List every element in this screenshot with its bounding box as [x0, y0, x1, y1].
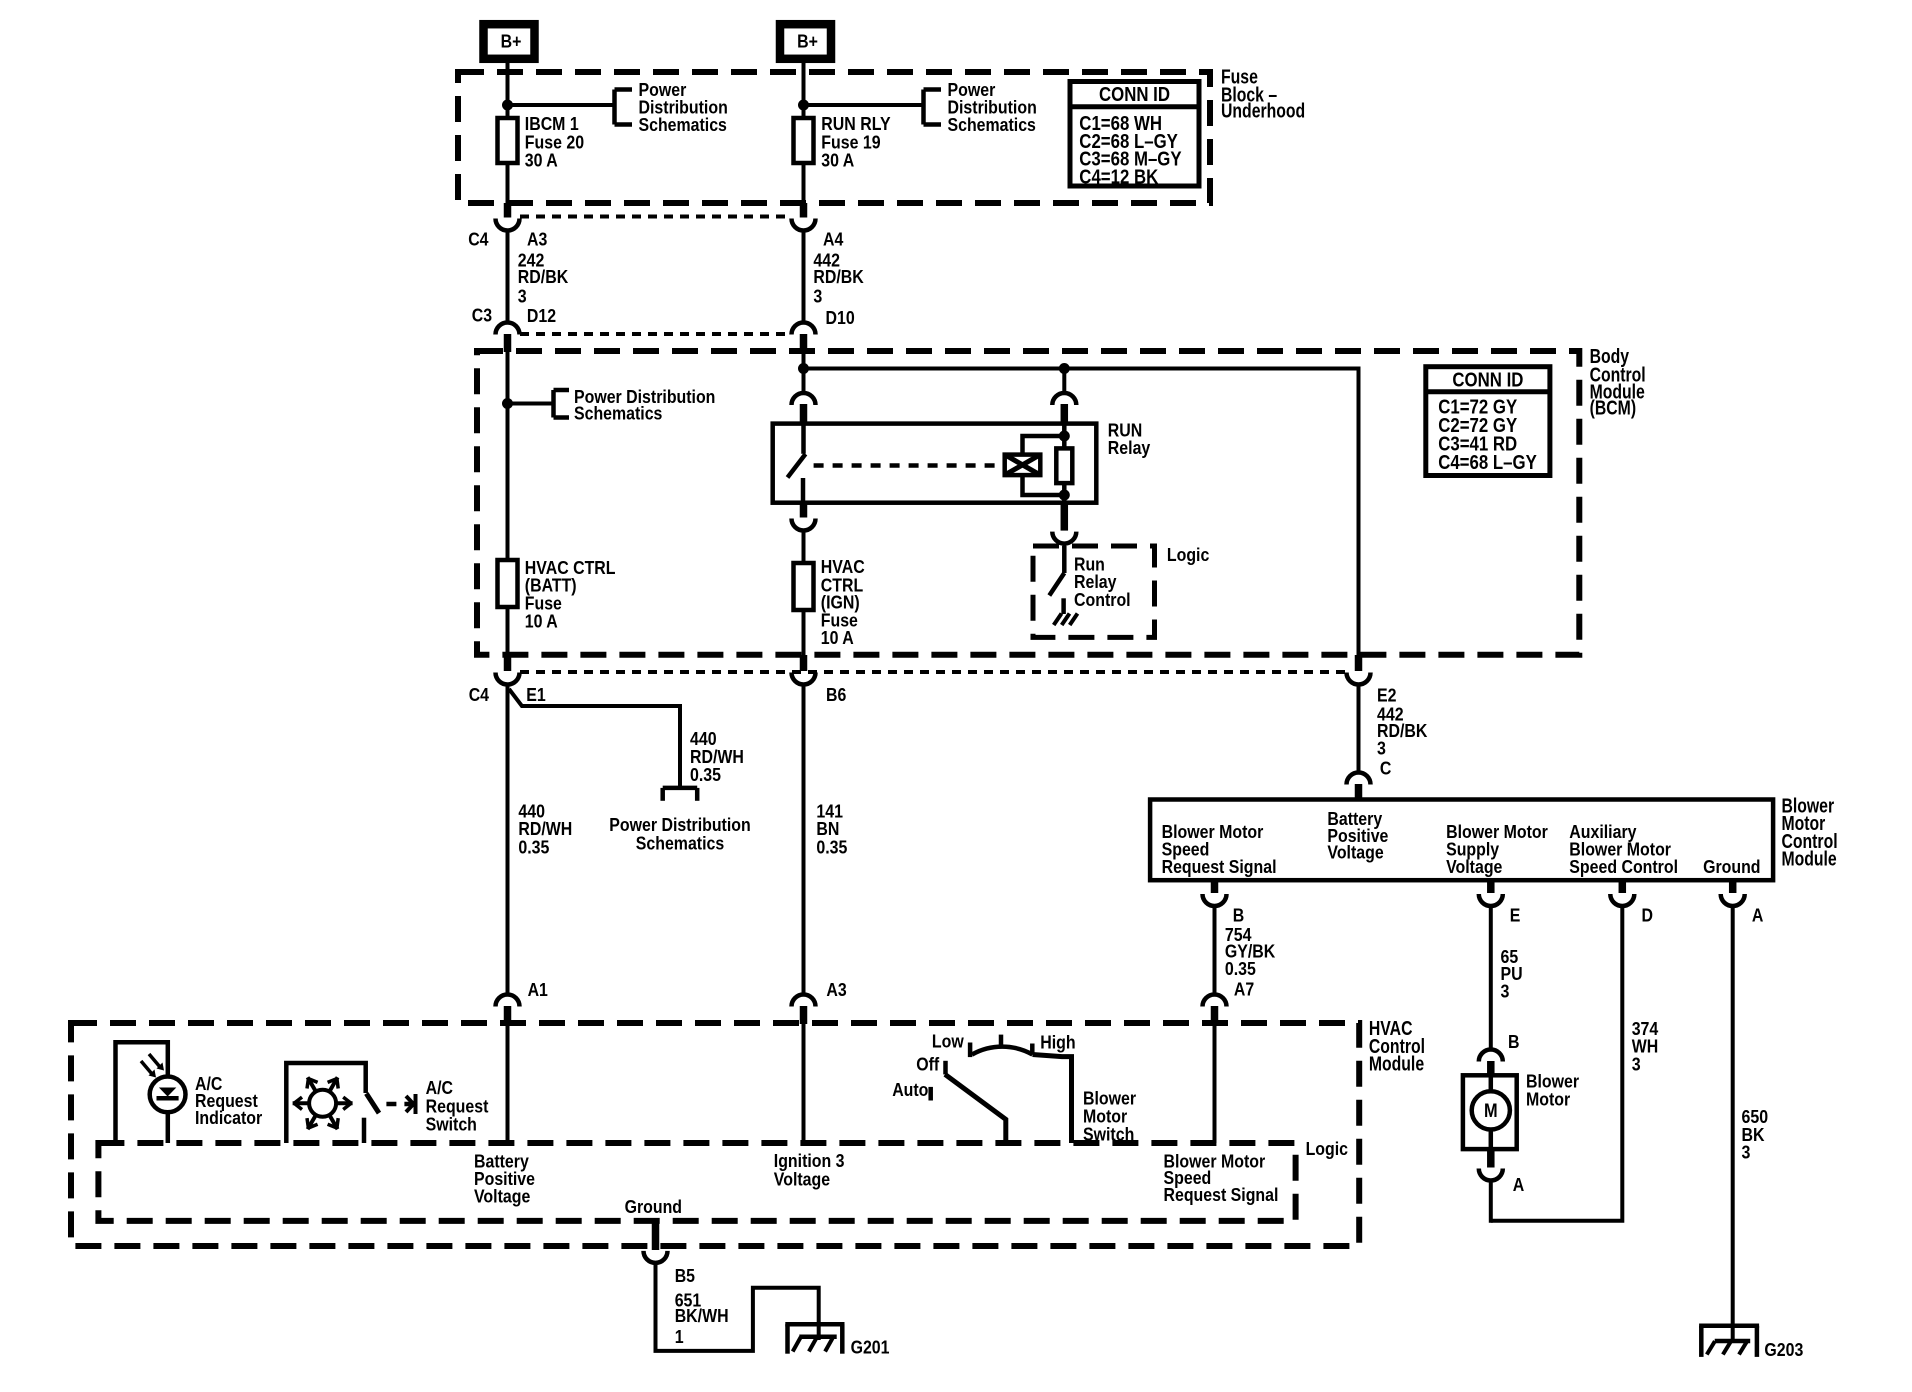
LED light arrows — [141, 1054, 164, 1078]
wire battery positive into hvac — [506, 1024, 510, 1143]
blower switch tick off — [943, 1061, 948, 1075]
pin label E2 — [1377, 684, 1397, 705]
svg-text:C4=68 L–GY: C4=68 L–GY — [1438, 451, 1537, 474]
dotted connector line C4-A4 — [520, 215, 791, 219]
connector D10 socket — [792, 323, 816, 335]
blower switch tick low — [968, 1043, 973, 1058]
connector C4/E1 pin — [504, 655, 512, 671]
off-page tag power distribution 4 — [609, 728, 750, 854]
fuse IBCM 1 Fuse 20 30A — [498, 113, 585, 170]
a/c request indicator label — [195, 1073, 262, 1128]
svg-text:Request Signal: Request Signal — [1162, 856, 1277, 877]
wire ignition into hvac — [802, 1024, 806, 1143]
power terminal B+ (left) — [484, 24, 535, 59]
dotted connector line C3-D10 — [520, 332, 791, 336]
blower switch high contact line — [1033, 1055, 1072, 1144]
pin label C3 — [472, 305, 492, 326]
wire label 754 GY/BK 0.35 — [1225, 924, 1276, 979]
connector motor B socket — [1479, 1050, 1503, 1062]
wire E1 branch — [509, 689, 680, 786]
svg-text:M: M — [1484, 1101, 1498, 1122]
wire 442 RD/BK to module — [1357, 683, 1361, 772]
node junction coil bottom — [1059, 490, 1070, 501]
svg-text:Voltage: Voltage — [1327, 842, 1383, 863]
relay switch fixed contact top — [801, 424, 806, 454]
svg-text:A7: A7 — [1234, 979, 1254, 1000]
svg-text:Off: Off — [916, 1054, 940, 1075]
wire label 65 PU 3 — [1501, 946, 1523, 1002]
svg-text:B5: B5 — [675, 1265, 695, 1286]
wire label 141 BN 0.35 — [816, 801, 847, 858]
hvac pin name speed request — [1164, 1151, 1279, 1206]
off-page tag power distribution 1 — [615, 79, 728, 135]
wire coil drop above relay — [1062, 369, 1066, 393]
svg-text:E2: E2 — [1377, 684, 1397, 705]
node junction coil top — [1059, 431, 1070, 442]
wire label E2 442 RD/BK 3 — [1377, 704, 1428, 759]
connector D10 pin — [800, 334, 808, 352]
hvac pin name ignition — [774, 1150, 845, 1190]
svg-text:0.35: 0.35 — [518, 836, 549, 857]
relay coil symbol — [1005, 455, 1041, 476]
run relay control label — [1074, 554, 1131, 610]
svg-text:Module: Module — [1782, 848, 1837, 871]
module label blower motor control module — [1782, 794, 1838, 870]
pin label A1 — [528, 979, 548, 1000]
wire BCM left drop — [506, 351, 510, 560]
svg-text:10 A: 10 A — [525, 611, 558, 632]
blower motor control module box — [1150, 800, 1773, 881]
svg-text:Voltage: Voltage — [474, 1186, 530, 1207]
svg-text:C3: C3 — [472, 305, 492, 326]
node junction BCM bus left — [798, 363, 809, 374]
hvac pin name battery positive — [474, 1151, 535, 1207]
connector motor A socket — [1479, 1169, 1503, 1181]
relay coil bracket — [1023, 436, 1065, 495]
connector coil output socket — [1052, 532, 1076, 544]
wire resistor stubs — [1062, 424, 1067, 503]
svg-text:A: A — [1752, 905, 1764, 926]
logic label BCM — [1167, 544, 1209, 565]
run relay control logic dashed box — [1033, 546, 1155, 637]
connector A3 socket — [792, 995, 816, 1007]
svg-text:RD/BK: RD/BK — [813, 266, 864, 287]
pin label D — [1642, 905, 1654, 926]
connector A7 pin — [1211, 1006, 1219, 1024]
connector relay input socket — [792, 393, 816, 405]
connector coil output pin — [1061, 503, 1069, 531]
run relay control switch — [1049, 546, 1064, 614]
svg-text:RD/BK: RD/BK — [518, 266, 569, 287]
connector C pin — [1355, 784, 1363, 800]
pin label A3 — [527, 228, 547, 249]
svg-text:B+: B+ — [501, 31, 522, 52]
svg-text:C4=12 BK: C4=12 BK — [1079, 165, 1158, 188]
pin label A — [1752, 905, 1764, 926]
a/c request switch dashes — [386, 1102, 414, 1107]
connector E2 socket — [1347, 673, 1371, 685]
connector B6 pin — [800, 655, 808, 671]
relay actuation dashed link — [814, 463, 1003, 468]
fuse RUN RLY Fuse 19 30A — [794, 113, 892, 170]
connector C4/A3 socket — [496, 219, 520, 231]
svg-text:A: A — [1513, 1174, 1525, 1195]
wire to power distribution tag 3 — [508, 402, 554, 406]
blower switch blade — [945, 1074, 1006, 1143]
ground G203 symbol — [1699, 1326, 1759, 1357]
svg-text:A3: A3 — [527, 228, 547, 249]
fuse block underhood dashed box — [458, 72, 1210, 203]
wire fuse20 to connector C4 — [506, 163, 510, 204]
hvac logic dashed box — [98, 1143, 1295, 1221]
pin label E1 — [526, 684, 546, 705]
wire label 242 RD/BK 3 — [518, 250, 569, 307]
svg-text:B: B — [1233, 905, 1245, 926]
ground G201 symbol — [785, 1324, 844, 1354]
LED indicator symbol — [150, 1077, 186, 1113]
svg-text:High: High — [1040, 1031, 1075, 1052]
wire B+ left to fuse IBCM1 — [506, 60, 510, 118]
svg-text:Motor: Motor — [1526, 1089, 1570, 1110]
wire coil out to logic — [1062, 544, 1066, 549]
svg-text:0.35: 0.35 — [816, 836, 847, 857]
connector module pin E — [1487, 880, 1495, 893]
connector module socket E — [1479, 894, 1503, 906]
pin label E — [1510, 905, 1521, 926]
a/c request switch contact — [406, 1094, 416, 1114]
svg-text:BK/WH: BK/WH — [675, 1305, 729, 1326]
module pin name aux speed control — [1569, 821, 1678, 877]
svg-text:10 A: 10 A — [821, 627, 854, 648]
connector relay coil socket — [1052, 393, 1076, 405]
svg-text:30 A: 30 A — [525, 150, 558, 171]
fuse HVAC CTRL BATT 10A — [498, 557, 616, 631]
svg-text:Switch: Switch — [1083, 1124, 1134, 1145]
wire 754 GY/BK — [1213, 906, 1217, 995]
module pin name battery positive — [1327, 808, 1388, 863]
connector C3/D12 pin — [504, 334, 512, 352]
svg-text:CONN ID: CONN ID — [1452, 368, 1523, 391]
node junction BCM bus coil — [1059, 363, 1070, 374]
connector hvac ground socket — [644, 1251, 668, 1263]
svg-text:Logic: Logic — [1306, 1138, 1348, 1159]
wire label 650 BK 3 — [1742, 1106, 1769, 1163]
svg-text:Control: Control — [1074, 589, 1131, 610]
svg-text:3: 3 — [1632, 1053, 1641, 1074]
wire speed request into hvac — [1213, 1024, 1217, 1143]
svg-text:Schematics: Schematics — [948, 114, 1036, 135]
BCM label — [1590, 345, 1646, 420]
svg-text:A1: A1 — [528, 979, 548, 1000]
svg-text:Ground: Ground — [1703, 856, 1760, 877]
blower switch label off — [916, 1054, 940, 1075]
a/c request switch blade — [366, 1094, 379, 1114]
svg-text:Module: Module — [1369, 1053, 1424, 1076]
connector A4 pin — [800, 203, 808, 218]
a/c snowflake symbol — [293, 1077, 353, 1129]
svg-text:Switch: Switch — [426, 1114, 477, 1135]
svg-text:Schematics: Schematics — [636, 833, 724, 854]
connector hvac ground pin — [652, 1220, 660, 1250]
blower switch tick top — [999, 1035, 1004, 1048]
wire motor A to 374 WH — [1489, 1180, 1493, 1223]
blower motor label — [1526, 1071, 1579, 1110]
svg-text:Low: Low — [932, 1031, 964, 1052]
blower switch arc — [972, 1047, 1033, 1055]
svg-text:Voltage: Voltage — [1446, 856, 1502, 877]
dotted connector line E1-B6-E2 — [520, 670, 1346, 674]
wire 442 RD/BK top — [802, 229, 806, 323]
wire 651 BK/WH — [656, 1263, 819, 1351]
connector motor B pin — [1487, 1061, 1495, 1076]
blower switch tick auto — [928, 1087, 933, 1101]
svg-text:Underhood: Underhood — [1221, 100, 1305, 123]
svg-text:Relay: Relay — [1108, 437, 1151, 458]
hvac pin name ground — [625, 1196, 682, 1217]
module pin name speed request — [1162, 821, 1277, 877]
connector module socket D — [1610, 894, 1634, 906]
wire to power distribution tag 1 — [508, 103, 614, 107]
a/c request switch label — [426, 1077, 489, 1135]
svg-text:B: B — [1508, 1031, 1520, 1052]
svg-text:Auto: Auto — [892, 1079, 928, 1100]
hvac module label — [1369, 1017, 1425, 1076]
svg-text:3: 3 — [1377, 737, 1386, 758]
connector motor A pin — [1487, 1149, 1495, 1167]
connector module pin B — [1211, 880, 1219, 893]
pin label A7 — [1234, 979, 1254, 1000]
svg-text:0.35: 0.35 — [1225, 958, 1256, 979]
svg-text:30 A: 30 A — [821, 150, 854, 171]
connector C socket — [1347, 773, 1371, 785]
svg-text:D: D — [1642, 905, 1654, 926]
wire label 440 RD/WH 0.35 — [518, 801, 572, 858]
wire BCM middle drop — [802, 352, 806, 392]
pin label motor A — [1513, 1174, 1525, 1195]
power terminal B+ (right) — [780, 24, 831, 59]
hvac control module dashed box — [71, 1023, 1359, 1246]
node junction at fuse 19 — [798, 100, 809, 111]
relay switch blade — [788, 454, 806, 478]
a/c request switch branch box — [286, 1063, 365, 1143]
connector E2 pin — [1355, 655, 1363, 671]
blower switch label low — [932, 1031, 964, 1052]
relay RUN box — [773, 424, 1097, 503]
svg-text:B6: B6 — [826, 684, 846, 705]
fuse HVAC CTRL IGN 10A — [794, 556, 865, 648]
svg-text:B+: B+ — [797, 31, 818, 52]
wire 141 BN — [802, 683, 806, 994]
svg-text:A4: A4 — [823, 228, 844, 249]
fuse block label — [1221, 66, 1305, 123]
connector A3 pin — [800, 1006, 808, 1024]
blower motor switch label — [1083, 1088, 1136, 1145]
svg-text:3: 3 — [518, 285, 527, 306]
wire 650 BK — [1731, 906, 1735, 1341]
blower switch label high — [1040, 1031, 1075, 1052]
pin label C4 lower — [469, 684, 490, 705]
pin label D10 — [826, 307, 855, 328]
svg-text:E1: E1 — [526, 684, 546, 705]
run relay control ground marks — [1054, 614, 1078, 626]
relay label RUN Relay — [1108, 420, 1151, 459]
svg-text:Indicator: Indicator — [195, 1107, 262, 1128]
connector module socket B — [1203, 894, 1227, 906]
connector A7 socket — [1203, 995, 1227, 1007]
svg-text:Request Signal: Request Signal — [1164, 1184, 1279, 1205]
svg-text:1: 1 — [675, 1326, 684, 1347]
conn id table BCM — [1426, 367, 1550, 476]
connector module socket A — [1721, 894, 1745, 906]
wire 242 RD/BK — [506, 229, 510, 323]
pin label A4 — [823, 228, 844, 249]
blower motor circle M — [1472, 1091, 1510, 1129]
off-page tag power distribution 3 — [554, 386, 716, 424]
connector relay coil pin — [1061, 404, 1069, 424]
pin label B6 — [826, 684, 846, 705]
connector C4/E1 socket — [496, 673, 520, 685]
wire 65 PU — [1489, 906, 1493, 1050]
connector module pin D — [1619, 880, 1627, 893]
wire 440 RD/WH — [506, 683, 510, 994]
ground label G201 — [851, 1337, 890, 1358]
wire label 374 WH 3 — [1632, 1018, 1659, 1074]
blower switch tick high — [1030, 1044, 1035, 1055]
blower switch label auto — [892, 1079, 928, 1100]
svg-text:Schematics: Schematics — [574, 403, 662, 424]
a/c request indicator branch box — [116, 1042, 168, 1143]
svg-text:(BCM): (BCM) — [1590, 397, 1637, 420]
svg-text:3: 3 — [813, 285, 822, 306]
connector A4 socket — [792, 219, 816, 231]
wire below fuse IGN — [802, 610, 806, 655]
wire fuse19 to connector C4 right — [802, 163, 806, 204]
relay switch fixed contact bottom — [801, 478, 806, 503]
svg-text:Speed Control: Speed Control — [1569, 856, 1678, 877]
connector A1 socket — [496, 995, 520, 1007]
connector module pin A — [1729, 880, 1737, 893]
svg-text:E: E — [1510, 905, 1521, 926]
svg-text:D12: D12 — [527, 305, 556, 326]
connector C3/D12 socket — [496, 323, 520, 335]
wire label 442 RD/BK 3 top — [813, 250, 864, 307]
body control module dashed box — [477, 351, 1579, 655]
pin label A3 lower — [826, 979, 846, 1000]
blower motor wires inside — [1489, 1075, 1494, 1149]
svg-text:C4: C4 — [469, 684, 490, 705]
pin label motor B — [1508, 1031, 1520, 1052]
module pin name ground — [1703, 856, 1760, 877]
connector A1 pin — [504, 1006, 512, 1024]
wire bus corner to E2 drop — [1357, 367, 1361, 656]
ground label G203 — [1764, 1339, 1803, 1360]
connector B6 socket — [792, 673, 816, 685]
svg-text:G203: G203 — [1764, 1339, 1803, 1360]
relay coil resistor — [1056, 448, 1072, 483]
node junction at fuse 20 — [502, 100, 513, 111]
wire below fuse BATT — [506, 607, 510, 655]
svg-text:CONN ID: CONN ID — [1099, 83, 1170, 106]
BCM internal bus wire — [804, 367, 1359, 371]
svg-text:Logic: Logic — [1167, 544, 1209, 565]
module pin name supply voltage — [1446, 821, 1548, 877]
wire to power distribution tag 2 — [804, 103, 923, 107]
svg-text:Voltage: Voltage — [774, 1169, 830, 1190]
svg-text:C: C — [1380, 758, 1392, 779]
wire relay out to fuse IGN — [802, 530, 806, 563]
svg-text:Schematics: Schematics — [639, 114, 727, 135]
conn id table fuse block — [1070, 82, 1199, 189]
blower motor box — [1463, 1075, 1517, 1149]
pin label C4 — [468, 228, 489, 249]
svg-text:0.35: 0.35 — [690, 764, 721, 785]
connector relay output pin — [800, 503, 808, 518]
wire 374 WH — [1491, 906, 1623, 1221]
connector C4/A3 pin — [504, 203, 512, 218]
pin label D12 — [527, 305, 556, 326]
svg-text:D10: D10 — [826, 307, 855, 328]
svg-text:3: 3 — [1501, 981, 1510, 1002]
wire label B5 651 BK/WH 1 — [675, 1265, 729, 1347]
svg-text:C4: C4 — [468, 228, 489, 249]
svg-text:3: 3 — [1742, 1141, 1751, 1162]
logic label hvac — [1306, 1138, 1348, 1159]
connector relay output socket — [792, 519, 816, 531]
connector relay input pin — [800, 404, 808, 424]
pin label B — [1233, 905, 1245, 926]
svg-text:A3: A3 — [826, 979, 846, 1000]
off-page tag power distribution 2 — [924, 79, 1037, 135]
node junction power dist tag BCM — [502, 398, 513, 409]
svg-text:G201: G201 — [851, 1337, 890, 1358]
pin label C — [1380, 758, 1392, 779]
svg-text:Ground: Ground — [625, 1196, 682, 1217]
wire B+ right to fuse RUN RLY — [802, 60, 806, 118]
